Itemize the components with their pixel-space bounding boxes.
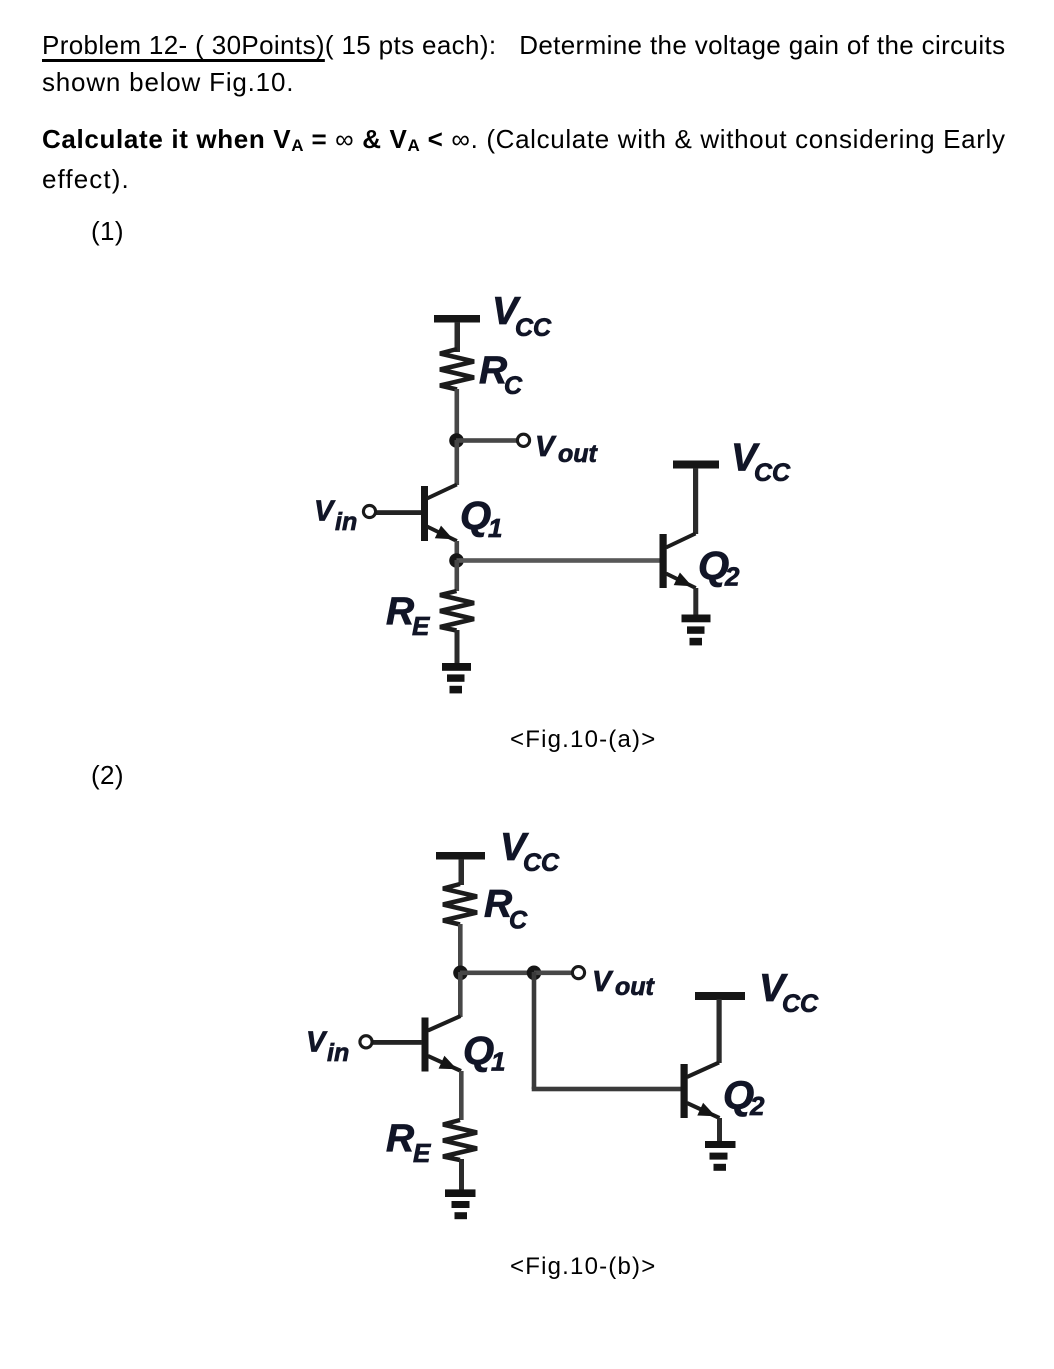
wire Q2 emitter to ground (circuit b)	[717, 1118, 722, 1143]
svg-text:in: in	[327, 1039, 349, 1067]
node: collector/output junction (circuit a)	[449, 433, 464, 448]
svg-text:E: E	[412, 611, 430, 641]
label VCC (circuit b, left)	[500, 826, 560, 877]
label Q2 (circuit b)	[723, 1074, 765, 1122]
wire second node to vout terminal (circuit b)	[534, 971, 572, 976]
label vout (circuit b)	[592, 966, 656, 1001]
svg-text:V: V	[535, 431, 557, 463]
problem statement line 4	[42, 164, 130, 195]
ground (below RE, circuit a)	[442, 663, 471, 693]
svg-text:CC: CC	[782, 990, 819, 1018]
wire across to Q2 base (circuit b)	[532, 1087, 682, 1092]
svg-text:in: in	[335, 508, 357, 536]
terminal vin open circle (circuit a)	[363, 505, 375, 517]
svg-text:out: out	[615, 973, 656, 1001]
transistor Q1 (circuit a)	[421, 485, 457, 542]
caption Fig.10-(a)	[510, 726, 656, 754]
svg-text:CC: CC	[523, 849, 560, 877]
svg-text:out: out	[558, 440, 599, 468]
wire vin terminal to Q1 base (circuit a)	[376, 510, 421, 515]
caption Fig.10-(b)	[510, 1253, 656, 1281]
label RE (circuit b)	[386, 1117, 431, 1168]
problem statement line 3	[42, 124, 1006, 156]
label VCC (circuit b, right)	[759, 967, 819, 1018]
wire RE to ground (circuit b)	[459, 1159, 464, 1190]
svg-text:Q: Q	[463, 1029, 494, 1073]
transistor Q2 (circuit a)	[660, 534, 696, 589]
wire Q1 emitter down to RE (circuit b)	[459, 1071, 464, 1120]
problem statement line 2	[42, 67, 294, 98]
svg-text:V: V	[306, 1027, 328, 1059]
label VCC (circuit a, left)	[492, 290, 552, 342]
VCC supply symbol (circuit a, right)	[673, 461, 719, 535]
wire node to vout terminal (circuit a)	[456, 438, 517, 443]
node: output tap junction (circuit b)	[527, 966, 542, 981]
transistor Q1 (circuit b)	[422, 1016, 462, 1072]
label vin (circuit b)	[306, 1027, 349, 1068]
svg-text:C: C	[504, 372, 523, 400]
label RE (circuit a)	[386, 590, 430, 641]
resistor RE (circuit b)	[443, 1120, 477, 1160]
svg-text:E: E	[413, 1138, 431, 1168]
ground (below Q2, circuit b)	[705, 1141, 736, 1171]
problem statement line 1	[42, 30, 1005, 61]
svg-text:2: 2	[749, 1091, 765, 1121]
wire emitter node down to RE (circuit a)	[455, 560, 460, 591]
svg-text:R: R	[479, 349, 507, 392]
wire node to second node (circuit b)	[460, 971, 534, 976]
svg-text:2: 2	[724, 562, 740, 592]
svg-text:R: R	[386, 1117, 414, 1160]
label Q2 (circuit a)	[698, 544, 740, 592]
resistor RC (circuit a)	[440, 349, 474, 390]
wire Q2 emitter to ground (circuit a)	[693, 588, 698, 615]
wire RC bottom to output node (circuit b)	[458, 924, 463, 973]
svg-text:Q: Q	[460, 494, 491, 538]
transistor Q2 (circuit b)	[681, 1063, 720, 1119]
svg-text:V: V	[592, 966, 614, 998]
VCC supply symbol (circuit b, left)	[436, 852, 485, 885]
wire node to Q1 collector (circuit a)	[455, 440, 460, 485]
svg-text:V: V	[314, 496, 336, 528]
svg-text:CC: CC	[515, 314, 552, 342]
svg-text:CC: CC	[754, 459, 791, 487]
ground (below RE, circuit b)	[445, 1189, 476, 1219]
node: emitter junction (circuit a)	[449, 553, 464, 568]
label vin (circuit a)	[314, 496, 357, 537]
label RC (circuit a)	[479, 349, 523, 400]
wire node to Q1 collector (circuit b)	[458, 972, 463, 1017]
node: collector junction (circuit b)	[453, 966, 468, 981]
svg-text:C: C	[509, 907, 528, 935]
VCC supply symbol (circuit a, left)	[434, 315, 480, 352]
label Q1 (circuit b)	[463, 1029, 505, 1077]
wire output node down (circuit b)	[532, 972, 537, 1089]
wire RE to ground (circuit a)	[455, 630, 460, 664]
wire Q1 emitter down to emitter node (circuit a)	[455, 541, 460, 561]
resistor RC (circuit b)	[443, 884, 477, 925]
label Q1 (circuit a)	[460, 494, 502, 543]
wire vin terminal to Q1 base (circuit b)	[372, 1040, 422, 1045]
terminal vin open circle (circuit b)	[360, 1036, 372, 1048]
terminal vout open circle (circuit a)	[517, 434, 529, 446]
label vout (circuit a)	[535, 431, 599, 468]
wire emitter node to Q2 base (circuit a)	[457, 558, 660, 563]
wire RC bottom to output node (circuit a)	[455, 389, 460, 440]
ground (below Q2, circuit a)	[682, 615, 711, 646]
item (1)	[91, 216, 124, 247]
label RC (circuit b)	[484, 883, 528, 935]
VCC supply symbol (circuit b, right)	[695, 992, 745, 1063]
item (2)	[91, 760, 124, 791]
svg-text:R: R	[484, 883, 512, 926]
svg-text:1: 1	[491, 1047, 505, 1077]
terminal vout open circle (circuit b)	[572, 967, 584, 979]
resistor RE (circuit a)	[440, 591, 474, 631]
svg-text:R: R	[386, 590, 414, 633]
svg-text:1: 1	[488, 513, 502, 543]
label VCC (circuit a, right)	[731, 437, 791, 488]
